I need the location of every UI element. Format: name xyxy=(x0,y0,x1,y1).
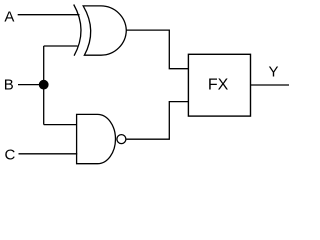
svg-text:Y: Y xyxy=(269,63,279,80)
svg-text:C: C xyxy=(5,147,16,164)
svg-text:A: A xyxy=(4,8,14,25)
svg-text:FX: FX xyxy=(208,77,229,94)
svg-text:B: B xyxy=(4,76,14,93)
